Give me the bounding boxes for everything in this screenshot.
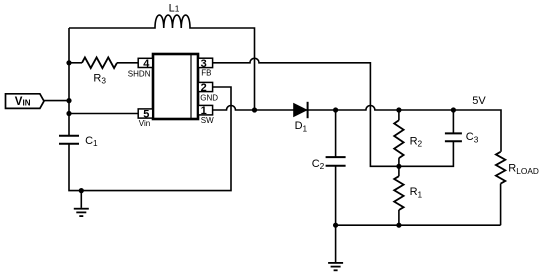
svg-text:2: 2 <box>201 82 207 94</box>
svg-text:Vin: Vin <box>139 119 150 128</box>
svg-text:SHDN: SHDN <box>128 69 151 78</box>
svg-text:5V: 5V <box>472 95 486 107</box>
svg-text:FB: FB <box>201 69 211 78</box>
svg-text:SW: SW <box>201 116 214 125</box>
svg-text:4: 4 <box>143 58 150 70</box>
svg-text:L1: L1 <box>169 3 180 15</box>
svg-text:GND: GND <box>200 93 218 102</box>
svg-text:VIN: VIN <box>15 96 31 108</box>
